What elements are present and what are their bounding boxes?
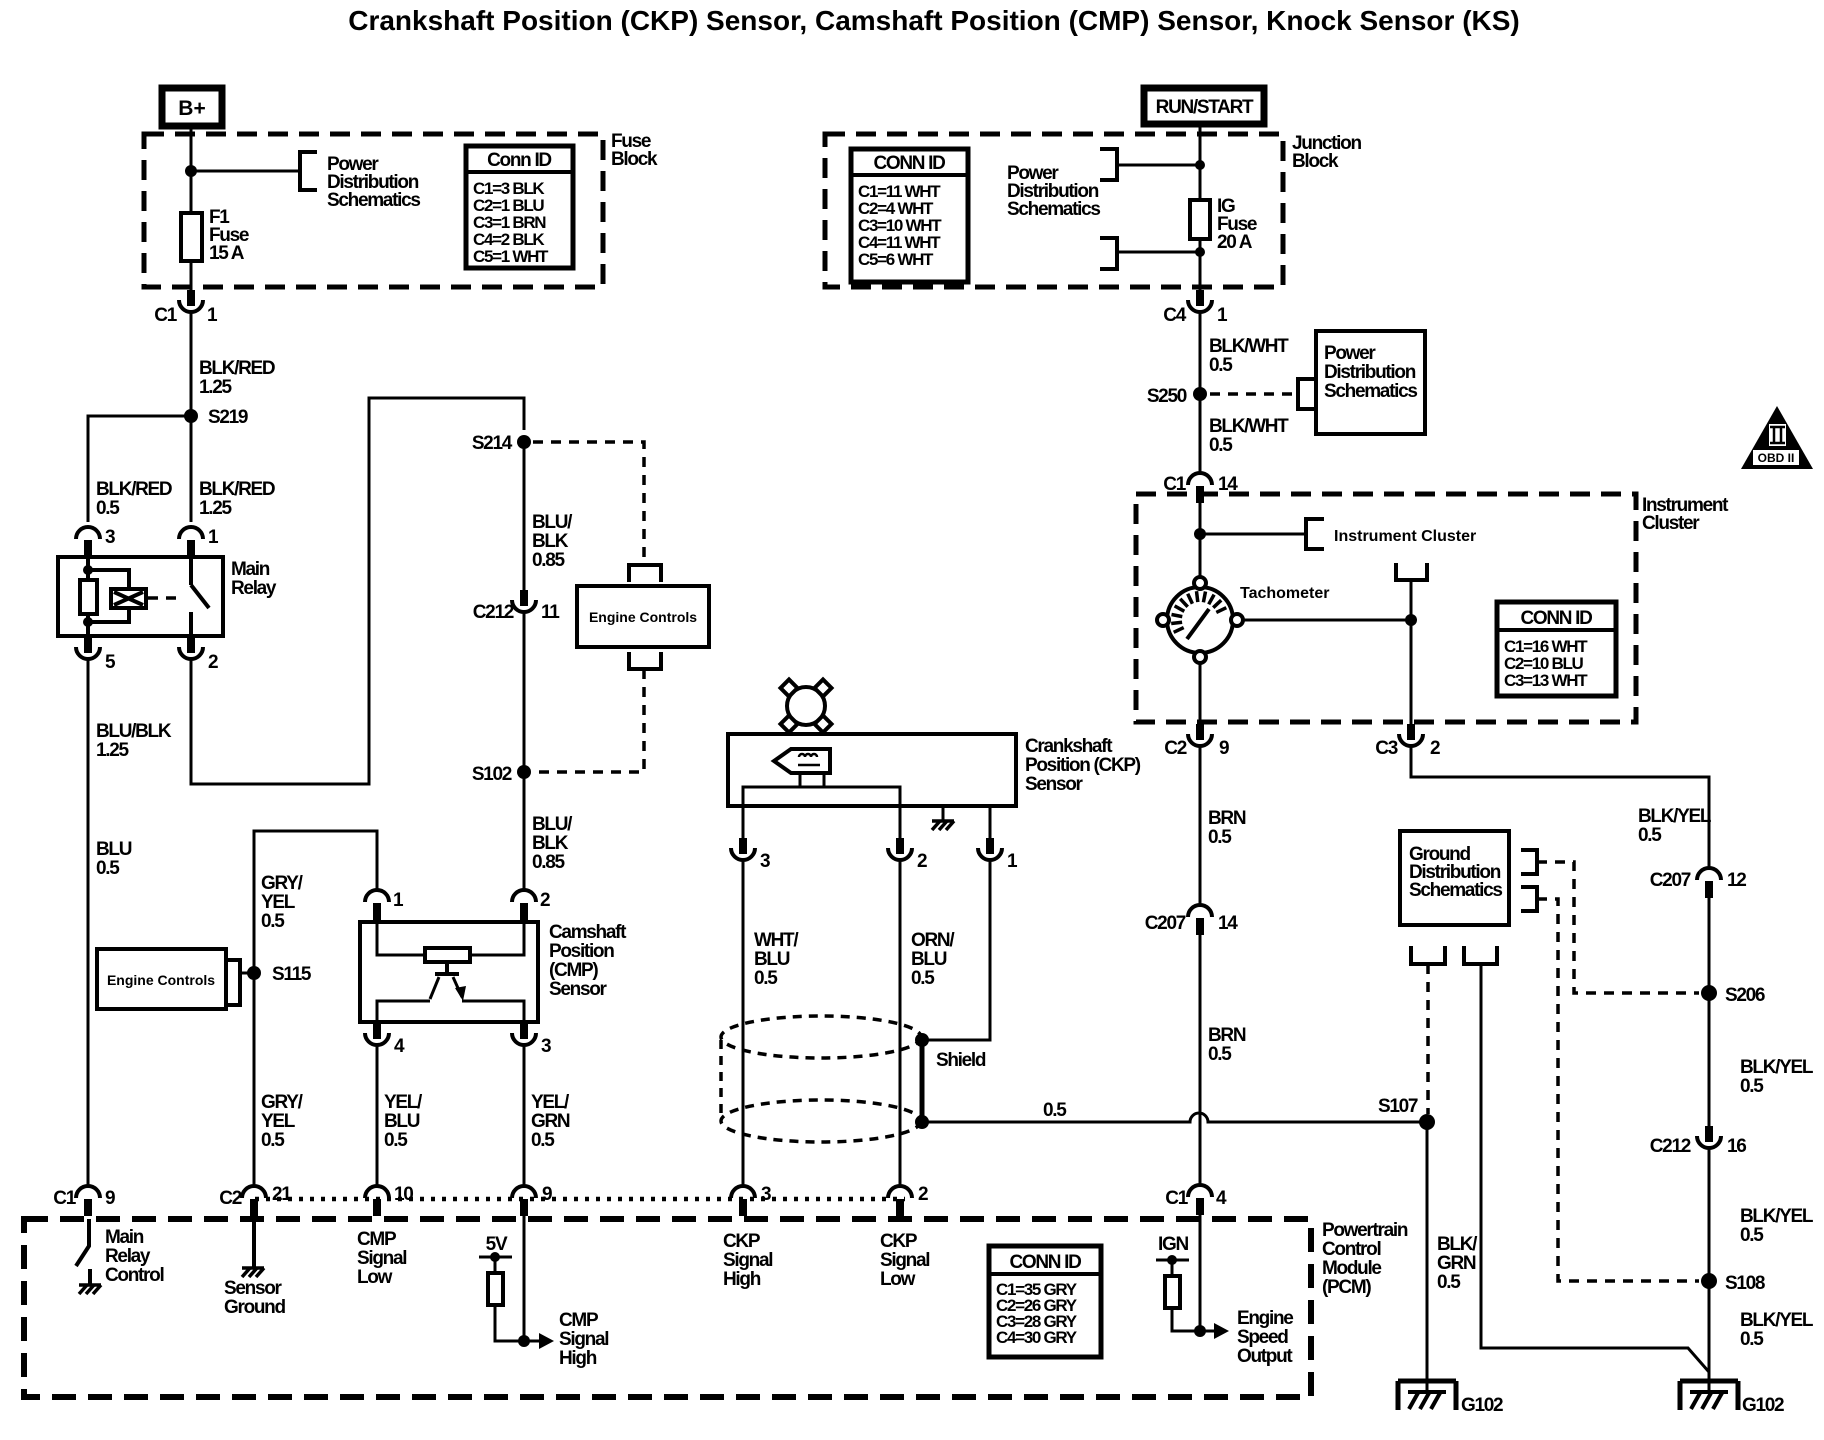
power distribution schematics box [1316, 331, 1425, 434]
svg-text:2: 2 [918, 1184, 928, 1205]
wire bracket to main line upper [1117, 164, 1200, 167]
CMP internal hall element (transistor) [435, 962, 459, 974]
svg-text:C1=35 GRYC2=26 GRYC3=28 GRYC4=: C1=35 GRYC2=26 GRYC3=28 GRYC4=30 GRY [996, 1280, 1078, 1347]
battery feed B+ [162, 88, 222, 126]
svg-text:11: 11 [541, 602, 560, 623]
node tachometer output [1405, 614, 1417, 626]
svg-text:RUN/START: RUN/START [1156, 97, 1254, 118]
bracket power distribution upper [1100, 149, 1117, 180]
svg-text:3: 3 [105, 527, 115, 548]
camshaft position sensor box [360, 922, 627, 1022]
wire pin 9 to CMP signal junction [523, 1210, 526, 1341]
dashed actuation link [148, 596, 184, 600]
node S214 [472, 433, 531, 454]
connector main relay pin 3 [76, 527, 115, 557]
wire C207-14 to PCM C1-4 [1199, 935, 1202, 1185]
connector C1 pin 14 [1163, 473, 1238, 503]
arrow engine speed output [1200, 1323, 1229, 1339]
IGN supply bar [1156, 1255, 1189, 1265]
svg-text:21: 21 [272, 1184, 292, 1205]
node shield top [915, 1033, 929, 1047]
ground distribution schematics box [1400, 831, 1509, 925]
svg-text:C1: C1 [53, 1188, 76, 1209]
svg-text:0.5: 0.5 [1043, 1100, 1067, 1121]
svg-text:2: 2 [1430, 738, 1440, 759]
wire ground distribution to right ground [1481, 964, 1709, 1372]
svg-text:Shield: Shield [936, 1050, 986, 1071]
svg-text:G102: G102 [1461, 1395, 1503, 1416]
connector C207 pin 14 [1145, 905, 1239, 935]
fuse block dashed box [144, 134, 603, 287]
bracket instrument cluster [1306, 519, 1324, 549]
svg-text:C2: C2 [1164, 738, 1186, 759]
node S102 [472, 764, 531, 785]
CMP internal resistor [425, 948, 470, 962]
wire IGN resistor to junction [1172, 1308, 1200, 1331]
svg-text:C207: C207 [1145, 913, 1186, 934]
svg-text:9: 9 [542, 1184, 552, 1205]
node shield bottom [915, 1115, 929, 1129]
PCM connector dotted line [255, 1197, 905, 1202]
svg-text:CONN ID: CONN ID [873, 153, 945, 174]
svg-text:G102: G102 [1742, 1395, 1784, 1416]
svg-text:Conn ID: Conn ID [487, 150, 551, 171]
node: power distribution tap [185, 165, 197, 177]
bracket below ground distribution left [1411, 946, 1445, 964]
connector CMP pin 1 [365, 890, 404, 920]
CKP pickup element [774, 749, 830, 773]
svg-text:9: 9 [105, 1188, 115, 1209]
connector C207 pin 12 [1650, 868, 1747, 898]
crankshaft position sensor box [728, 734, 1141, 806]
svg-text:S250: S250 [1147, 386, 1187, 407]
wire resistor to junction [495, 1305, 524, 1341]
wire relay pin 2 to S214 [191, 398, 524, 784]
svg-text:C1=16 WHTC2=10 BLUC3=13 WHT: C1=16 WHTC2=10 BLUC3=13 WHT [1504, 637, 1588, 690]
node engine speed junction [1194, 1325, 1206, 1337]
wire S107 to ground G102 left [1426, 1122, 1429, 1392]
wire C212-11 to S102 [523, 612, 526, 890]
OBD II symbol [1741, 406, 1813, 469]
wire S214 down to C212-11 [523, 442, 526, 590]
svg-text:S102: S102 [472, 764, 512, 785]
svg-text:C207: C207 [1650, 870, 1691, 891]
svg-text:C1=3 BLKC2=1 BLUC3=1 BRNC4=2 B: C1=3 BLKC2=1 BLUC3=1 BRNC4=2 BLKC5=1 WHT [473, 179, 549, 266]
svg-text:SensorGround: SensorGround [224, 1278, 285, 1318]
wire tachometer right terminal [1243, 619, 1411, 622]
svg-text:2: 2 [208, 652, 218, 673]
node S206 [1701, 985, 1765, 1006]
IGN pull-up resistor [1165, 1260, 1180, 1308]
bracket below ground distribution right [1464, 946, 1497, 964]
wire tap to cluster bracket [1200, 533, 1306, 536]
CKP shield pin stub [989, 806, 992, 838]
dashed wire bracket to S107 [1426, 964, 1430, 1114]
svg-text:Engine Controls: Engine Controls [589, 609, 697, 625]
wire C1-4 to engine speed junction [1199, 1215, 1202, 1331]
bracket below engine controls [629, 652, 661, 669]
powertrain control module dashed box [24, 1219, 1311, 1397]
connector CMP pin 3 [512, 1023, 551, 1057]
wire C1-14 to tachometer [1199, 503, 1202, 581]
shield ellipse bottom [721, 1100, 921, 1142]
IG fuse 20A [1190, 196, 1257, 253]
junction block dashed box [825, 134, 1283, 287]
svg-text:10: 10 [394, 1184, 413, 1205]
svg-text:B+: B+ [178, 97, 205, 120]
sensor ground wire [252, 1219, 256, 1267]
connector main relay pin 5 [76, 637, 116, 673]
svg-text:Instrument Cluster: Instrument Cluster [1334, 528, 1476, 545]
svg-text:9: 9 [1219, 738, 1229, 759]
connector C212 pin 16 [1650, 1126, 1747, 1157]
connector C1 pin 9 (main relay control) [53, 1186, 115, 1216]
svg-text:16: 16 [1727, 1136, 1746, 1157]
svg-text:CONN ID: CONN ID [1520, 608, 1592, 629]
node S108 [1701, 1273, 1765, 1294]
connector pin 9 (CMP signal high) [512, 1184, 552, 1216]
wire CKP pin 1 (shield drain) [922, 860, 990, 1040]
CKP internal ground stub [942, 806, 945, 820]
svg-text:C3: C3 [1375, 738, 1397, 759]
ground G102 (left) [1398, 1381, 1503, 1416]
wire GRY/YEL branch S115 to CMP pin 1 [254, 831, 377, 973]
dashed reference S250 to power distribution [1210, 392, 1296, 396]
svg-text:3: 3 [760, 851, 770, 872]
svg-text:2: 2 [540, 890, 550, 911]
ground G102 (right) [1680, 1381, 1784, 1416]
svg-text:S115: S115 [272, 964, 312, 985]
wire RUN/START to IG fuse [1199, 124, 1202, 200]
relay switch [191, 557, 209, 636]
connector CKP pin 1 [978, 838, 1018, 872]
wire C4-1 to C1-14 [1199, 312, 1202, 473]
node coil bottom [83, 617, 93, 627]
fuse F1 15A [181, 207, 249, 264]
wire bracket to S115 [240, 972, 254, 975]
CKP internal ground [932, 821, 954, 830]
svg-text:Engine Controls: Engine Controls [107, 972, 215, 988]
node S115 [247, 964, 312, 985]
svg-text:C1=11 WHTC2=4 WHTC3=10 WHTC4=1: C1=11 WHTC2=4 WHTC3=10 WHTC4=11 WHTC5=6 … [858, 182, 942, 269]
wire CKP pin 3 to PCM pin 3 [742, 860, 745, 1186]
connector C3 pin 2 [1375, 724, 1440, 759]
bracket: power distribution schematics (fuse block) [300, 152, 317, 190]
wire B+ to fuse F1 [190, 126, 193, 213]
5V supply bar [479, 1252, 512, 1262]
conn id table (PCM) [989, 1246, 1101, 1357]
svg-text:C4: C4 [1163, 305, 1186, 326]
arrow CMP signal high [524, 1333, 554, 1349]
svg-text:3: 3 [761, 1184, 771, 1205]
5V pull-up resistor [488, 1257, 503, 1305]
transistor collector with arrow [453, 977, 466, 1001]
wire relay pin 5 to PCM C1-9 [87, 659, 90, 1186]
svg-text:C212: C212 [473, 602, 514, 623]
svg-text:OBD II: OBD II [1758, 451, 1795, 465]
svg-text:3: 3 [541, 1036, 551, 1057]
conn id table (instrument cluster) [1497, 602, 1616, 696]
relay coil symbol (box with X) [111, 589, 146, 608]
conn id table (junction block) [851, 149, 968, 282]
svg-text:S107: S107 [1378, 1096, 1418, 1117]
bracket tachometer feed [1396, 563, 1427, 580]
shield cylinder left edge [719, 1040, 723, 1118]
shield ellipse top [721, 1016, 921, 1058]
bracket ground distribution upper [1521, 850, 1537, 874]
svg-text:C212: C212 [1650, 1136, 1691, 1157]
dashed reference S214 to engine controls [533, 442, 644, 560]
connector C2 pin 9 [1164, 724, 1229, 759]
conn id table (fuse block) [466, 146, 573, 268]
relay coil loop wire [88, 570, 129, 622]
tachometer gauge [1157, 577, 1243, 663]
dashed reference to S206 [1537, 862, 1699, 993]
connector pin 10 (CMP signal low) [365, 1184, 413, 1216]
connector CMP pin 2 [512, 890, 550, 920]
dashed reference engine controls to S102 [533, 669, 644, 772]
connector CKP pin 2 [888, 838, 927, 872]
wire tachometer output to C3-2 [1410, 580, 1413, 724]
main relay box [58, 557, 277, 636]
connector C4 pin 1 [1163, 290, 1228, 326]
connector C1 pin 4 (engine speed output) [1165, 1185, 1227, 1215]
node upper tap [1195, 160, 1205, 170]
main relay control ground [79, 1285, 101, 1294]
svg-text:5V: 5V [486, 1234, 508, 1255]
reluctor wheel icon [781, 680, 832, 733]
node S107 [1378, 1096, 1435, 1130]
wire C2-9 to C207-14 [1199, 746, 1202, 905]
main relay control switch [76, 1219, 90, 1284]
connector CMP pin 4 [365, 1023, 405, 1057]
node cluster tap [1194, 528, 1206, 540]
svg-text:IGN: IGN [1158, 1234, 1188, 1255]
relay coil circuit: feed wire [86, 557, 90, 580]
connector CKP-PCM pin 2 [888, 1184, 928, 1216]
node lower tap [1195, 247, 1205, 257]
svg-text:Crankshaft Position (CKP) Sens: Crankshaft Position (CKP) Sensor, Camsha… [348, 5, 1520, 36]
wire bracket to main line lower [1117, 251, 1200, 254]
node CMP signal high junction [518, 1335, 530, 1347]
transistor emitter [430, 977, 439, 999]
wire shield to S107 with hop [922, 1113, 1427, 1122]
svg-text:2: 2 [917, 851, 927, 872]
wire tachometer to C2-9 [1199, 663, 1202, 724]
CMP internal feed wires [377, 922, 524, 955]
instrument cluster dashed box [1136, 494, 1636, 722]
bracket ground distribution lower [1521, 887, 1537, 911]
wire coil bottom to relay pin 5 [86, 614, 90, 636]
shield conductor [920, 1040, 925, 1122]
connector C2 pin 21 (sensor ground) [219, 1184, 292, 1216]
svg-text:S206: S206 [1725, 985, 1765, 1006]
svg-text:S219: S219 [208, 407, 248, 428]
svg-text:CONN ID: CONN ID [1009, 1252, 1081, 1273]
bracket power distribution schematics box [1298, 379, 1316, 409]
connector main relay pin 1 [179, 527, 219, 557]
engine controls box (left) [97, 949, 226, 1009]
svg-text:EngineSpeedOutput: EngineSpeedOutput [1237, 1308, 1293, 1367]
connector C1 pin 1 (fuse block output) [154, 290, 218, 326]
node coil top [83, 565, 93, 575]
dashed reference to S108 [1537, 899, 1699, 1281]
node S250 [1147, 386, 1207, 407]
wire C3-2 to BLK/YEL riser [1411, 746, 1709, 1392]
wire CMP pin 4 to PCM pin 10 [376, 1045, 379, 1186]
svg-text:12: 12 [1727, 870, 1746, 891]
svg-text:14: 14 [1218, 913, 1238, 934]
connector C212 pin 11 [473, 590, 560, 623]
connector main relay pin 2 [179, 637, 218, 673]
sensor ground symbol [242, 1268, 264, 1277]
wire S219 branch left [88, 416, 191, 522]
bracket above engine controls [629, 565, 661, 582]
wire CMP pin 3 to PCM pin 9 [523, 1045, 526, 1186]
engine controls box (right) [577, 586, 709, 647]
svg-text:C2: C2 [219, 1188, 241, 1209]
wire IG fuse to C4-1 [1199, 239, 1202, 290]
wire F1 to connector C1-1 [190, 261, 193, 290]
node S219 [184, 407, 248, 428]
svg-text:S214: S214 [472, 433, 513, 454]
connector CKP pin 3 [731, 838, 770, 872]
ignition feed RUN/START [1144, 88, 1264, 124]
connector CKP-PCM pin 3 [731, 1184, 771, 1216]
relay coil resistor [80, 580, 97, 614]
CKP internal wiring [743, 773, 900, 838]
svg-text:C1: C1 [1165, 1188, 1188, 1209]
bracket power distribution lower [1100, 238, 1117, 269]
wire S115 to PCM C2-21 [253, 973, 256, 1186]
CMP internal output wires [377, 1001, 524, 1022]
wire CKP pin 2 to PCM pin 2 [899, 860, 902, 1186]
svg-text:S108: S108 [1725, 1273, 1765, 1294]
svg-text:C1: C1 [154, 305, 177, 326]
wire tap to power distribution bracket [191, 170, 299, 173]
bracket right of engine controls [226, 960, 240, 1005]
wire C1-1 to S219 [190, 312, 193, 522]
svg-text:Tachometer: Tachometer [1240, 585, 1330, 602]
